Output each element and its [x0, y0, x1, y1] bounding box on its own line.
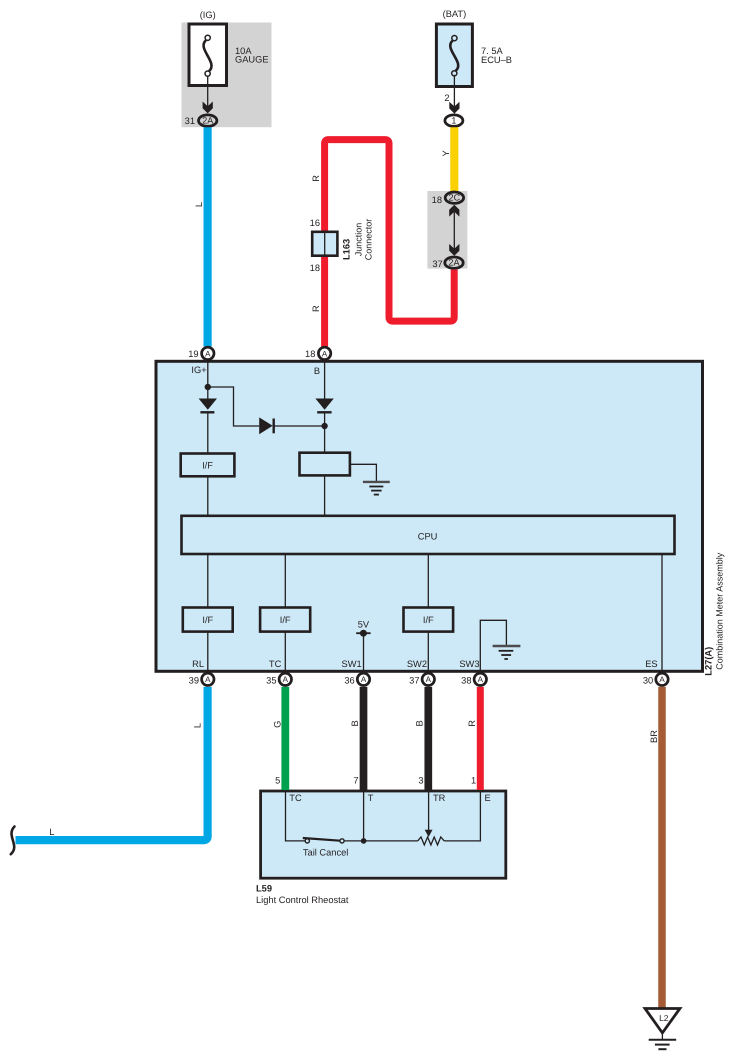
svg-text:A: A [205, 349, 211, 358]
svg-text:Light Control Rheostat: Light Control Rheostat [256, 895, 349, 905]
svg-text:3: 3 [418, 776, 423, 786]
svg-text:ECU–B: ECU–B [481, 55, 512, 65]
svg-text:Combination Meter Assembly: Combination Meter Assembly [715, 552, 725, 670]
wire IG+ vertical [207, 361, 209, 399]
wire Y (yellow) [450, 127, 458, 191]
svg-text:R: R [467, 720, 477, 727]
svg-text:38: 38 [461, 676, 471, 686]
wire TR internal [428, 790, 430, 831]
connector circle A pin19 [202, 347, 214, 359]
svg-text:A: A [478, 675, 484, 684]
wire relay to CPU [324, 475, 326, 515]
connector circle A pin38 [474, 673, 486, 685]
svg-text:BR: BR [649, 730, 659, 743]
svg-text:TR: TR [433, 793, 446, 803]
wire I/F to CPU [207, 476, 209, 516]
node junction dot [205, 384, 211, 390]
wire fuse F2 to connector [453, 75, 455, 108]
svg-text:L59: L59 [256, 883, 272, 893]
wire L (blue) fuse to pin 19 [204, 127, 212, 346]
node T junction dot [361, 838, 367, 844]
svg-text:Y: Y [441, 150, 451, 156]
svg-text:E: E [485, 793, 491, 803]
svg-text:1: 1 [471, 776, 476, 786]
svg-text:B: B [314, 366, 320, 376]
ground G2 [493, 646, 521, 659]
svg-text:GAUGE: GAUGE [235, 55, 269, 65]
wire B vertical [324, 361, 326, 399]
wire G (green) pin35 to L59 [281, 687, 289, 790]
svg-text:R: R [311, 305, 321, 312]
svg-text:2A: 2A [202, 116, 213, 126]
svg-text:IG+: IG+ [191, 365, 206, 375]
svg-text:G: G [273, 721, 283, 728]
svg-text:(IG): (IG) [200, 10, 216, 20]
svg-text:30: 30 [643, 676, 653, 686]
connector circle A pin39 [202, 673, 214, 685]
arrow onto rheostat [425, 830, 433, 837]
5V terminal [356, 620, 370, 637]
continuation squiggle [11, 827, 15, 855]
svg-text:I/F: I/F [202, 460, 213, 470]
svg-text:(BAT): (BAT) [443, 9, 467, 19]
wire B (black) pin36 to L59 [360, 687, 368, 790]
wire 5V to SW1 [363, 633, 365, 670]
svg-text:L27(A): L27(A) [704, 647, 714, 676]
svg-text:36: 36 [344, 676, 354, 686]
wire CPU to ES [661, 555, 663, 670]
diode D3 (right) [259, 417, 324, 434]
svg-text:CPU: CPU [418, 531, 438, 541]
svg-text:L2: L2 [659, 1013, 669, 1023]
svg-text:A: A [659, 675, 665, 684]
I/F box lower TC [260, 608, 310, 632]
svg-text:A: A [322, 349, 328, 358]
svg-text:A: A [426, 675, 432, 684]
I/F box lower RL [183, 608, 233, 632]
wire D1 to I/F [207, 412, 209, 453]
node junction dot B [321, 423, 327, 429]
connector circle A pin18 [318, 347, 330, 359]
wire R (red) pin38 to L59 [477, 687, 484, 790]
wire T internal [363, 790, 365, 841]
svg-text:A: A [205, 675, 211, 684]
connector circle A pin35 [279, 673, 291, 685]
I/F box upper left [181, 454, 235, 477]
svg-text:Tail Cancel: Tail Cancel [303, 847, 348, 857]
svg-text:ES: ES [645, 659, 657, 669]
diode D2 (down) [315, 399, 333, 413]
svg-text:39: 39 [189, 676, 199, 686]
svg-text:SW2: SW2 [407, 659, 427, 669]
relay box (unlabeled) [300, 453, 350, 476]
junction connector L163 [312, 232, 337, 256]
wire CPU to I/F RL [207, 555, 209, 608]
svg-text:5V: 5V [358, 620, 370, 630]
arrow down to 2A [203, 102, 213, 114]
ground G1 [363, 482, 390, 495]
svg-text:31: 31 [185, 116, 195, 126]
wire CPU to I/F SW2 [427, 555, 429, 608]
wire RL I/F to pin [207, 632, 209, 670]
svg-text:L: L [194, 202, 204, 207]
wire SW2 I/F to pin [427, 632, 429, 670]
svg-text:B: B [350, 720, 360, 726]
connector oval 2A (IG fuse out) [199, 115, 217, 126]
wire fuse F1 to connector [207, 76, 209, 109]
svg-text:35: 35 [266, 676, 276, 686]
CPU box [182, 516, 675, 554]
light control rheostat box L59 [261, 791, 506, 878]
svg-text:TC: TC [289, 793, 302, 803]
svg-text:5: 5 [275, 776, 280, 786]
wire branch to middle diode [208, 387, 259, 426]
wire L (blue) pin39 to left edge [16, 687, 208, 840]
fuse F1 10A GAUGE box [189, 24, 227, 86]
fuse F2 7.5A ECU-B box (BAT) [436, 24, 472, 87]
svg-text:I/F: I/F [280, 615, 291, 625]
svg-text:L163: L163 [342, 239, 352, 260]
svg-text:18: 18 [305, 349, 315, 359]
svg-text:A: A [361, 675, 367, 684]
wire switch to T node [344, 840, 418, 842]
ground L2 [645, 1009, 680, 1050]
diode D1 (down) [199, 399, 217, 413]
connector holder gray box 2C/2A [427, 191, 467, 269]
wire resistor to E [444, 790, 480, 841]
wire D2 to relay box [324, 412, 326, 452]
double arrow 2C-2A [449, 205, 459, 256]
I/F box lower SW2 [404, 608, 454, 632]
svg-text:SW3: SW3 [459, 659, 479, 669]
svg-text:2: 2 [444, 93, 449, 103]
svg-text:SW1: SW1 [342, 659, 362, 669]
svg-text:2C: 2C [449, 193, 461, 203]
wire TC internal [286, 790, 306, 841]
arrow down to 1 [449, 102, 459, 114]
svg-text:L: L [192, 723, 202, 728]
combination meter assembly box L27(A) [156, 361, 703, 671]
svg-text:T: T [368, 793, 374, 803]
wire relay to ground G1 [350, 464, 376, 481]
svg-text:B: B [415, 720, 425, 726]
connector circle A pin30 [656, 673, 668, 685]
wire CPU to I/F TC [284, 555, 286, 608]
svg-text:Junction: Junction [354, 223, 364, 257]
svg-text:7: 7 [353, 776, 358, 786]
fuse holder gray box (IG) [182, 23, 272, 128]
svg-text:18: 18 [310, 263, 320, 273]
connector oval 1 [445, 115, 463, 126]
svg-text:37: 37 [409, 676, 419, 686]
connector oval 2C [445, 192, 463, 203]
svg-text:16: 16 [310, 218, 320, 228]
wire TC I/F to pin [284, 632, 286, 670]
svg-text:37: 37 [432, 259, 442, 269]
svg-text:L: L [49, 827, 54, 837]
wire B (black) pin37 to L59 [424, 687, 432, 790]
svg-text:I/F: I/F [202, 615, 213, 625]
connector oval 2A (to meter) [445, 257, 463, 268]
svg-text:1: 1 [451, 116, 456, 126]
connector circle A pin37 [422, 673, 434, 685]
rheostat resistor [418, 837, 445, 845]
svg-text:A: A [283, 675, 289, 684]
svg-text:R: R [311, 175, 321, 182]
svg-text:I/F: I/F [423, 615, 434, 625]
connector circle A pin36 [357, 673, 369, 685]
svg-text:2A: 2A [448, 258, 459, 268]
wire R (red) from 2A to pin 18 [325, 140, 455, 347]
svg-text:TC: TC [269, 659, 282, 669]
switch Tail Cancel [303, 838, 344, 843]
svg-text:19: 19 [188, 349, 198, 359]
svg-text:RL: RL [192, 659, 204, 669]
svg-text:Connector: Connector [363, 219, 373, 261]
svg-text:18: 18 [432, 195, 442, 205]
wire BR (brown) pin30 to ground [658, 687, 666, 1009]
wire SW3 to ground G2 [480, 620, 506, 670]
